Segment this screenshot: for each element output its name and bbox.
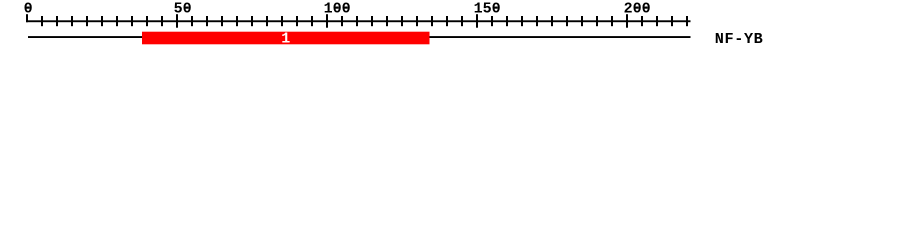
ruler minor ticks (41, 16, 688, 26)
ruler major tick 200 (626, 14, 628, 28)
ruler line (26, 20, 691, 22)
svg-text:50: 50 (174, 1, 192, 18)
domain bar 1 (142, 32, 430, 45)
svg-text:100: 100 (324, 1, 351, 18)
sequence line (28, 36, 691, 38)
svg-text:1: 1 (281, 30, 290, 47)
ruler major tick 50 (176, 14, 178, 28)
ruler major tick 150 (476, 14, 478, 28)
svg-text:150: 150 (474, 1, 501, 18)
svg-text:NF-YB: NF-YB (715, 30, 764, 48)
ruler major tick 0 (26, 14, 28, 22)
ruler major tick 100 (326, 14, 328, 28)
svg-text:0: 0 (24, 1, 33, 18)
zero-dash marks (bitmap-font slashed zeros) (27, 7, 648, 9)
svg-text:200: 200 (624, 1, 651, 18)
